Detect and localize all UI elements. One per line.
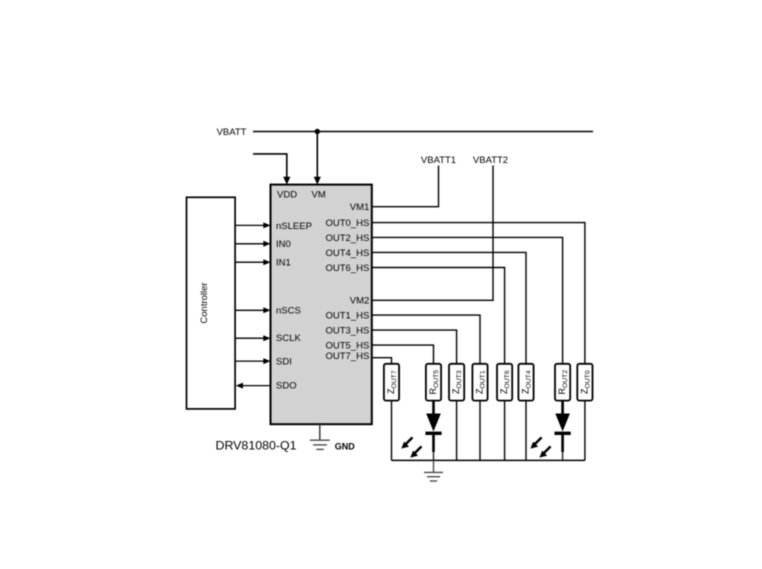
- pin SCLK label: [276, 333, 301, 344]
- wire OUT1_HS to ZOUT1: [372, 315, 480, 364]
- wire nSLEEP (controller to chip): [236, 222, 271, 228]
- pin VM label: [312, 190, 326, 201]
- LED D2 (under ROUT2): [555, 401, 571, 461]
- pin SDO label: [276, 380, 297, 391]
- wire VM supply (VBATT to VM pin, arrow into chip): [314, 132, 321, 185]
- svg-text:nSCS: nSCS: [276, 306, 301, 317]
- pin IN0 label: [276, 239, 291, 250]
- pin IN1 label: [276, 258, 291, 269]
- wire cathode return bus: [392, 459, 585, 461]
- LED D1 emission arrows: [401, 437, 421, 457]
- wire ZOUT4 to bus: [525, 401, 527, 461]
- ground (LED return): [424, 460, 443, 481]
- wire OUT7_HS to ZOUT7: [372, 358, 392, 364]
- svg-text:VBATT2: VBATT2: [473, 155, 508, 166]
- resistor ROUT5: [426, 364, 441, 401]
- resistor ZOUT6: [497, 364, 512, 401]
- svg-text:SDO: SDO: [276, 380, 297, 391]
- svg-text:IN0: IN0: [276, 239, 291, 250]
- wire ZOUT3 to bus: [456, 401, 458, 461]
- pin SDI label: [276, 357, 292, 368]
- wire ZOUT0 to bus: [584, 401, 586, 461]
- svg-text:OUT7_HS: OUT7_HS: [325, 351, 369, 362]
- svg-text:Controller: Controller: [199, 282, 210, 323]
- pin OUT1_HS label: [325, 311, 369, 322]
- wire VM2: [372, 299, 494, 301]
- svg-text:VDD: VDD: [277, 190, 297, 201]
- resistor ZOUT1: [472, 364, 487, 401]
- wire SDI: [236, 358, 271, 364]
- wire SCLK: [236, 335, 271, 341]
- svg-text:OUT6_HS: OUT6_HS: [325, 263, 369, 274]
- pin OUT6_HS label: [325, 263, 369, 274]
- pin VM1 label: [350, 202, 370, 213]
- wire OUT4_HS to ZOUT4: [372, 252, 526, 364]
- svg-text:OUT3_HS: OUT3_HS: [325, 326, 369, 337]
- svg-text:GND: GND: [335, 441, 356, 451]
- svg-text:nSLEEP: nSLEEP: [276, 221, 312, 232]
- wire VM1: [372, 206, 439, 208]
- wire VBATT1 drop: [438, 166, 440, 207]
- wire OUT3_HS to ZOUT3: [372, 330, 457, 364]
- IC U1 DRV81080-Q1 body: [271, 185, 372, 425]
- node VBATT1 label: [421, 155, 456, 166]
- wire IN1: [236, 259, 271, 265]
- label DRV81080-Q1: [216, 438, 297, 452]
- resistor ZOUT0: [577, 364, 592, 401]
- svg-text:OUT4_HS: OUT4_HS: [325, 248, 369, 259]
- svg-text:IN1: IN1: [276, 258, 291, 269]
- svg-text:OUT5_HS: OUT5_HS: [325, 341, 369, 352]
- pin OUT3_HS label: [325, 326, 369, 337]
- wire ZOUT1 to bus: [479, 401, 481, 461]
- svg-text:DRV81080-Q1: DRV81080-Q1: [216, 438, 297, 452]
- svg-text:OUT1_HS: OUT1_HS: [325, 311, 369, 322]
- node VBATT label: [217, 127, 247, 138]
- pin VM2 label: [350, 296, 370, 307]
- pin OUT7_HS label: [325, 351, 369, 362]
- wire ZOUT7 to bus: [391, 401, 393, 461]
- wire nSCS: [236, 307, 271, 313]
- wire VDD supply (arrow into VDD pin): [253, 154, 290, 185]
- label GND: [335, 441, 356, 451]
- svg-text:OUT0_HS: OUT0_HS: [325, 218, 369, 229]
- svg-text:VBATT1: VBATT1: [421, 155, 456, 166]
- pin nSCS label: [276, 306, 301, 317]
- wire OUT2_HS to ROUT2: [372, 237, 563, 364]
- wire VBATT2 drop: [492, 166, 494, 301]
- wire OUT6_HS to ZOUT6: [372, 268, 505, 365]
- resistor ZOUT7: [384, 364, 399, 401]
- wire OUT0_HS to ZOUT0: [372, 223, 585, 364]
- wire VBATT bus: [253, 131, 593, 133]
- pin OUT2_HS label: [325, 233, 369, 244]
- svg-text:SDI: SDI: [276, 357, 292, 368]
- pin VDD label: [277, 190, 297, 201]
- node VBATT2 label: [473, 155, 508, 166]
- controller block: [187, 197, 236, 409]
- wire ZOUT6 to bus: [504, 401, 506, 461]
- svg-text:VM1: VM1: [350, 202, 370, 213]
- resistor ZOUT3: [449, 364, 464, 401]
- svg-text:VM2: VM2: [350, 296, 370, 307]
- pin OUT4_HS label: [325, 248, 369, 259]
- junction VBATT/VM: [315, 129, 320, 134]
- wire OUT5_HS to ROUT5: [372, 345, 434, 364]
- resistor ZOUT4: [518, 364, 533, 401]
- pin OUT0_HS label: [325, 218, 369, 229]
- ground (chip GND pin): [310, 424, 330, 449]
- pin OUT5_HS label: [325, 341, 369, 352]
- svg-text:VBATT: VBATT: [217, 127, 247, 138]
- svg-text:OUT2_HS: OUT2_HS: [325, 233, 369, 244]
- svg-text:SCLK: SCLK: [276, 333, 301, 344]
- LED D2 emission arrows: [530, 437, 550, 457]
- svg-text:VM: VM: [312, 190, 326, 201]
- wire IN0: [236, 241, 271, 247]
- LED D1 (under ROUT5): [425, 401, 441, 461]
- wire SDO (chip to controller): [236, 383, 271, 389]
- resistor ROUT2: [555, 364, 570, 401]
- pin nSLEEP label: [276, 221, 312, 232]
